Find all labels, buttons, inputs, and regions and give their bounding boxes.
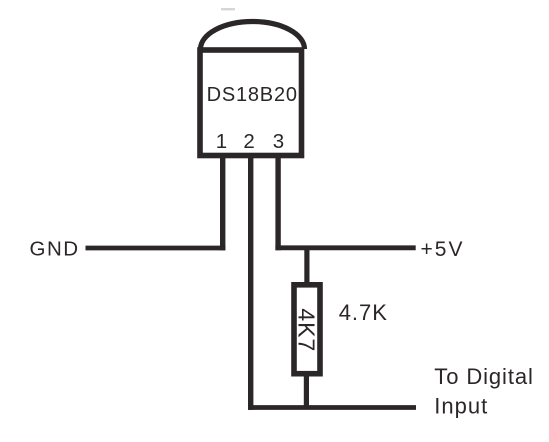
sensor U1 dome top	[201, 22, 305, 50]
wire: +5V horizontal	[275, 245, 415, 250]
svg-text:3: 3	[273, 130, 284, 153]
resistor R1 body	[294, 285, 320, 374]
wire: pin 3 lead down	[275, 153, 280, 250]
svg-text:4K7: 4K7	[294, 308, 320, 352]
wire: resistor bottom stub	[304, 372, 309, 408]
svg-text:1: 1	[216, 130, 227, 153]
wire: resistor top stub	[304, 246, 309, 286]
svg-text:2: 2	[243, 130, 254, 153]
svg-text:4.7K: 4.7K	[339, 300, 388, 325]
svg-text:To Digital: To Digital	[434, 364, 533, 389]
svg-text:+5V: +5V	[421, 238, 465, 261]
wire: pin 2 lead down	[248, 153, 253, 410]
sensor U1 DS18B20 TO-92 package body	[200, 50, 302, 156]
scan artifact smudge	[221, 8, 235, 10]
svg-text:GND: GND	[30, 238, 80, 261]
wire: pin 1 lead down	[220, 153, 225, 250]
wire: bottom horizontal to digital input	[248, 405, 416, 410]
wire: GND horizontal	[86, 246, 226, 251]
svg-text:Input: Input	[434, 393, 488, 418]
svg-text:DS18B20: DS18B20	[207, 84, 298, 106]
